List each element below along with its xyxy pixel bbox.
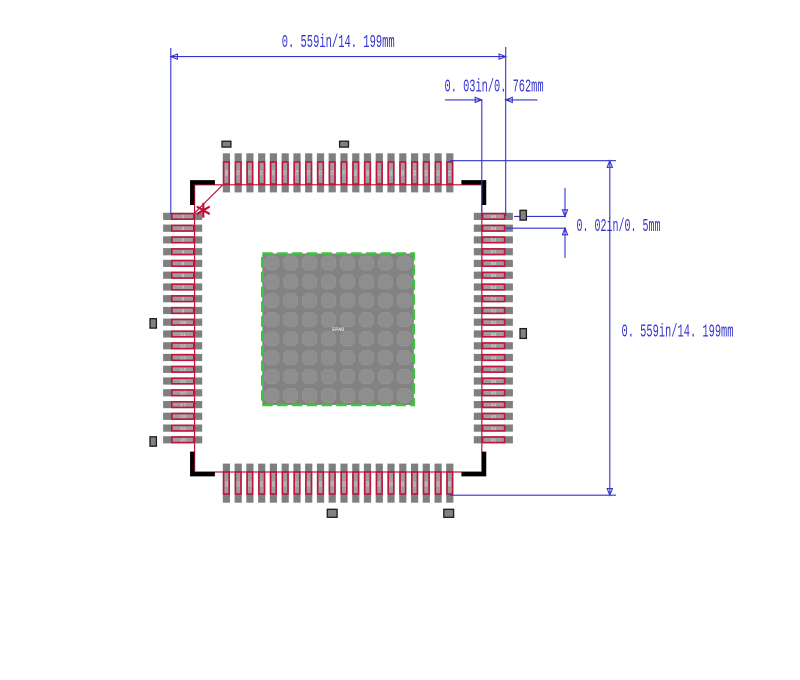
svg-text:64: 64 bbox=[412, 170, 418, 176]
svg-text:36: 36 bbox=[400, 481, 406, 487]
svg-text:6: 6 bbox=[182, 273, 185, 279]
svg-text:54: 54 bbox=[491, 285, 497, 291]
svg-text:65: 65 bbox=[400, 170, 406, 176]
svg-text:74: 74 bbox=[294, 170, 300, 176]
svg-text:0. 559in/14. 199mm: 0. 559in/14. 199mm bbox=[622, 322, 734, 342]
svg-text:15: 15 bbox=[180, 379, 186, 385]
svg-text:66: 66 bbox=[388, 170, 394, 176]
svg-text:53: 53 bbox=[491, 297, 497, 303]
svg-text:24: 24 bbox=[259, 481, 265, 487]
svg-text:51: 51 bbox=[491, 320, 497, 326]
svg-text:58: 58 bbox=[491, 238, 497, 244]
svg-text:68: 68 bbox=[365, 170, 371, 176]
svg-text:1: 1 bbox=[182, 214, 185, 220]
svg-text:17: 17 bbox=[180, 402, 186, 408]
svg-text:40: 40 bbox=[447, 481, 453, 487]
svg-text:60: 60 bbox=[491, 214, 497, 220]
svg-text:46: 46 bbox=[491, 379, 497, 385]
svg-text:14: 14 bbox=[180, 367, 186, 373]
svg-text:23: 23 bbox=[247, 481, 253, 487]
svg-text:76: 76 bbox=[271, 170, 277, 176]
svg-text:79: 79 bbox=[236, 170, 242, 176]
svg-text:0. 559in/14. 199mm: 0. 559in/14. 199mm bbox=[282, 33, 395, 53]
svg-text:34: 34 bbox=[377, 481, 383, 487]
svg-text:8: 8 bbox=[182, 297, 185, 303]
svg-text:48: 48 bbox=[491, 355, 497, 361]
svg-text:10: 10 bbox=[180, 320, 186, 326]
svg-text:43: 43 bbox=[491, 414, 497, 420]
svg-text:4: 4 bbox=[182, 250, 185, 256]
svg-text:0. 03in/0. 762mm: 0. 03in/0. 762mm bbox=[445, 78, 544, 98]
svg-text:72: 72 bbox=[318, 170, 324, 176]
svg-text:75: 75 bbox=[283, 170, 289, 176]
svg-text:5: 5 bbox=[182, 261, 185, 267]
svg-text:33: 33 bbox=[365, 481, 371, 487]
svg-text:EPAD: EPAD bbox=[332, 327, 344, 333]
svg-text:47: 47 bbox=[491, 367, 497, 373]
svg-text:7: 7 bbox=[182, 285, 185, 291]
svg-text:69: 69 bbox=[353, 170, 359, 176]
svg-text:63: 63 bbox=[424, 170, 430, 176]
svg-text:31: 31 bbox=[341, 481, 347, 487]
svg-text:25: 25 bbox=[271, 481, 277, 487]
svg-text:20: 20 bbox=[180, 438, 186, 444]
svg-text:59: 59 bbox=[491, 226, 497, 232]
svg-text:18: 18 bbox=[180, 414, 186, 420]
svg-text:61: 61 bbox=[447, 170, 453, 176]
svg-text:44: 44 bbox=[491, 402, 497, 408]
svg-text:0. 02in/0. 5mm: 0. 02in/0. 5mm bbox=[577, 217, 661, 237]
svg-text:38: 38 bbox=[424, 481, 430, 487]
svg-text:11: 11 bbox=[180, 332, 186, 338]
svg-text:2: 2 bbox=[182, 226, 185, 232]
svg-text:70: 70 bbox=[341, 170, 347, 176]
svg-text:37: 37 bbox=[412, 481, 418, 487]
svg-text:77: 77 bbox=[259, 170, 265, 176]
svg-text:39: 39 bbox=[436, 481, 442, 487]
svg-text:21: 21 bbox=[224, 481, 230, 487]
svg-text:30: 30 bbox=[330, 481, 336, 487]
svg-text:27: 27 bbox=[294, 481, 300, 487]
svg-text:22: 22 bbox=[236, 481, 242, 487]
svg-text:19: 19 bbox=[180, 426, 186, 432]
svg-text:78: 78 bbox=[247, 170, 253, 176]
svg-text:9: 9 bbox=[182, 308, 185, 314]
svg-text:41: 41 bbox=[491, 438, 497, 444]
svg-text:73: 73 bbox=[306, 170, 312, 176]
svg-text:50: 50 bbox=[491, 332, 497, 338]
svg-text:16: 16 bbox=[180, 391, 186, 397]
svg-text:49: 49 bbox=[491, 344, 497, 350]
svg-text:45: 45 bbox=[491, 391, 497, 397]
svg-text:13: 13 bbox=[180, 355, 186, 361]
svg-text:29: 29 bbox=[318, 481, 324, 487]
svg-text:62: 62 bbox=[436, 170, 442, 176]
svg-text:32: 32 bbox=[353, 481, 359, 487]
svg-text:52: 52 bbox=[491, 308, 497, 314]
svg-text:57: 57 bbox=[491, 250, 497, 256]
svg-text:56: 56 bbox=[491, 261, 497, 267]
svg-text:55: 55 bbox=[491, 273, 497, 279]
svg-text:35: 35 bbox=[388, 481, 394, 487]
svg-text:12: 12 bbox=[180, 344, 186, 350]
svg-text:3: 3 bbox=[182, 238, 185, 244]
svg-text:42: 42 bbox=[491, 426, 497, 432]
svg-text:28: 28 bbox=[306, 481, 312, 487]
svg-text:71: 71 bbox=[330, 170, 336, 176]
svg-text:80: 80 bbox=[224, 170, 230, 176]
svg-text:26: 26 bbox=[283, 481, 289, 487]
svg-text:67: 67 bbox=[377, 170, 383, 176]
